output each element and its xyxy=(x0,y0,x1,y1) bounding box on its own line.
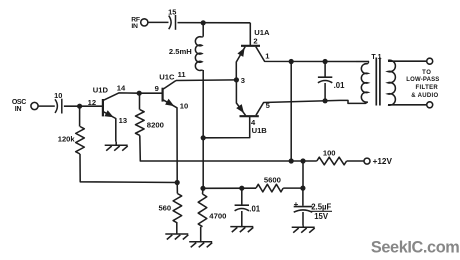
svg-text:120k: 120k xyxy=(58,135,76,144)
svg-text:15: 15 xyxy=(168,8,176,17)
svg-text:TO: TO xyxy=(422,70,431,76)
svg-text:10: 10 xyxy=(54,91,62,100)
svg-text:U1C: U1C xyxy=(159,73,175,82)
svg-text:11: 11 xyxy=(178,70,187,79)
svg-text:10: 10 xyxy=(180,102,188,111)
svg-text:SeekIC.com: SeekIC.com xyxy=(371,239,460,257)
svg-text:OSC: OSC xyxy=(12,99,26,106)
svg-text:.01: .01 xyxy=(249,204,261,213)
svg-text:560: 560 xyxy=(158,203,171,212)
svg-text:+12V: +12V xyxy=(373,157,393,166)
svg-text:100: 100 xyxy=(323,149,336,158)
svg-text:2: 2 xyxy=(253,36,257,45)
svg-text:LOW-PASS: LOW-PASS xyxy=(406,77,439,83)
svg-text:IN: IN xyxy=(15,106,22,113)
svg-text:2.5mH: 2.5mH xyxy=(169,47,192,56)
svg-text:9: 9 xyxy=(155,84,159,93)
svg-text:12: 12 xyxy=(88,98,96,107)
svg-text:14: 14 xyxy=(117,84,126,93)
svg-text:15V: 15V xyxy=(314,212,329,221)
svg-text:T1: T1 xyxy=(371,54,383,61)
svg-text:& AUDIO: & AUDIO xyxy=(411,93,438,99)
svg-text:.01: .01 xyxy=(334,81,346,90)
svg-text:5600: 5600 xyxy=(264,176,281,185)
svg-text:8200: 8200 xyxy=(147,121,164,130)
svg-text:4700: 4700 xyxy=(209,212,226,221)
svg-text:+: + xyxy=(294,200,299,209)
svg-text:3: 3 xyxy=(241,76,245,85)
svg-text:13: 13 xyxy=(119,116,127,125)
svg-text:U1B: U1B xyxy=(252,126,268,135)
svg-text:IN: IN xyxy=(131,23,138,30)
svg-text:2.5µF: 2.5µF xyxy=(311,202,331,211)
svg-text:FILTER: FILTER xyxy=(415,85,438,91)
svg-text:U1D: U1D xyxy=(93,86,109,95)
